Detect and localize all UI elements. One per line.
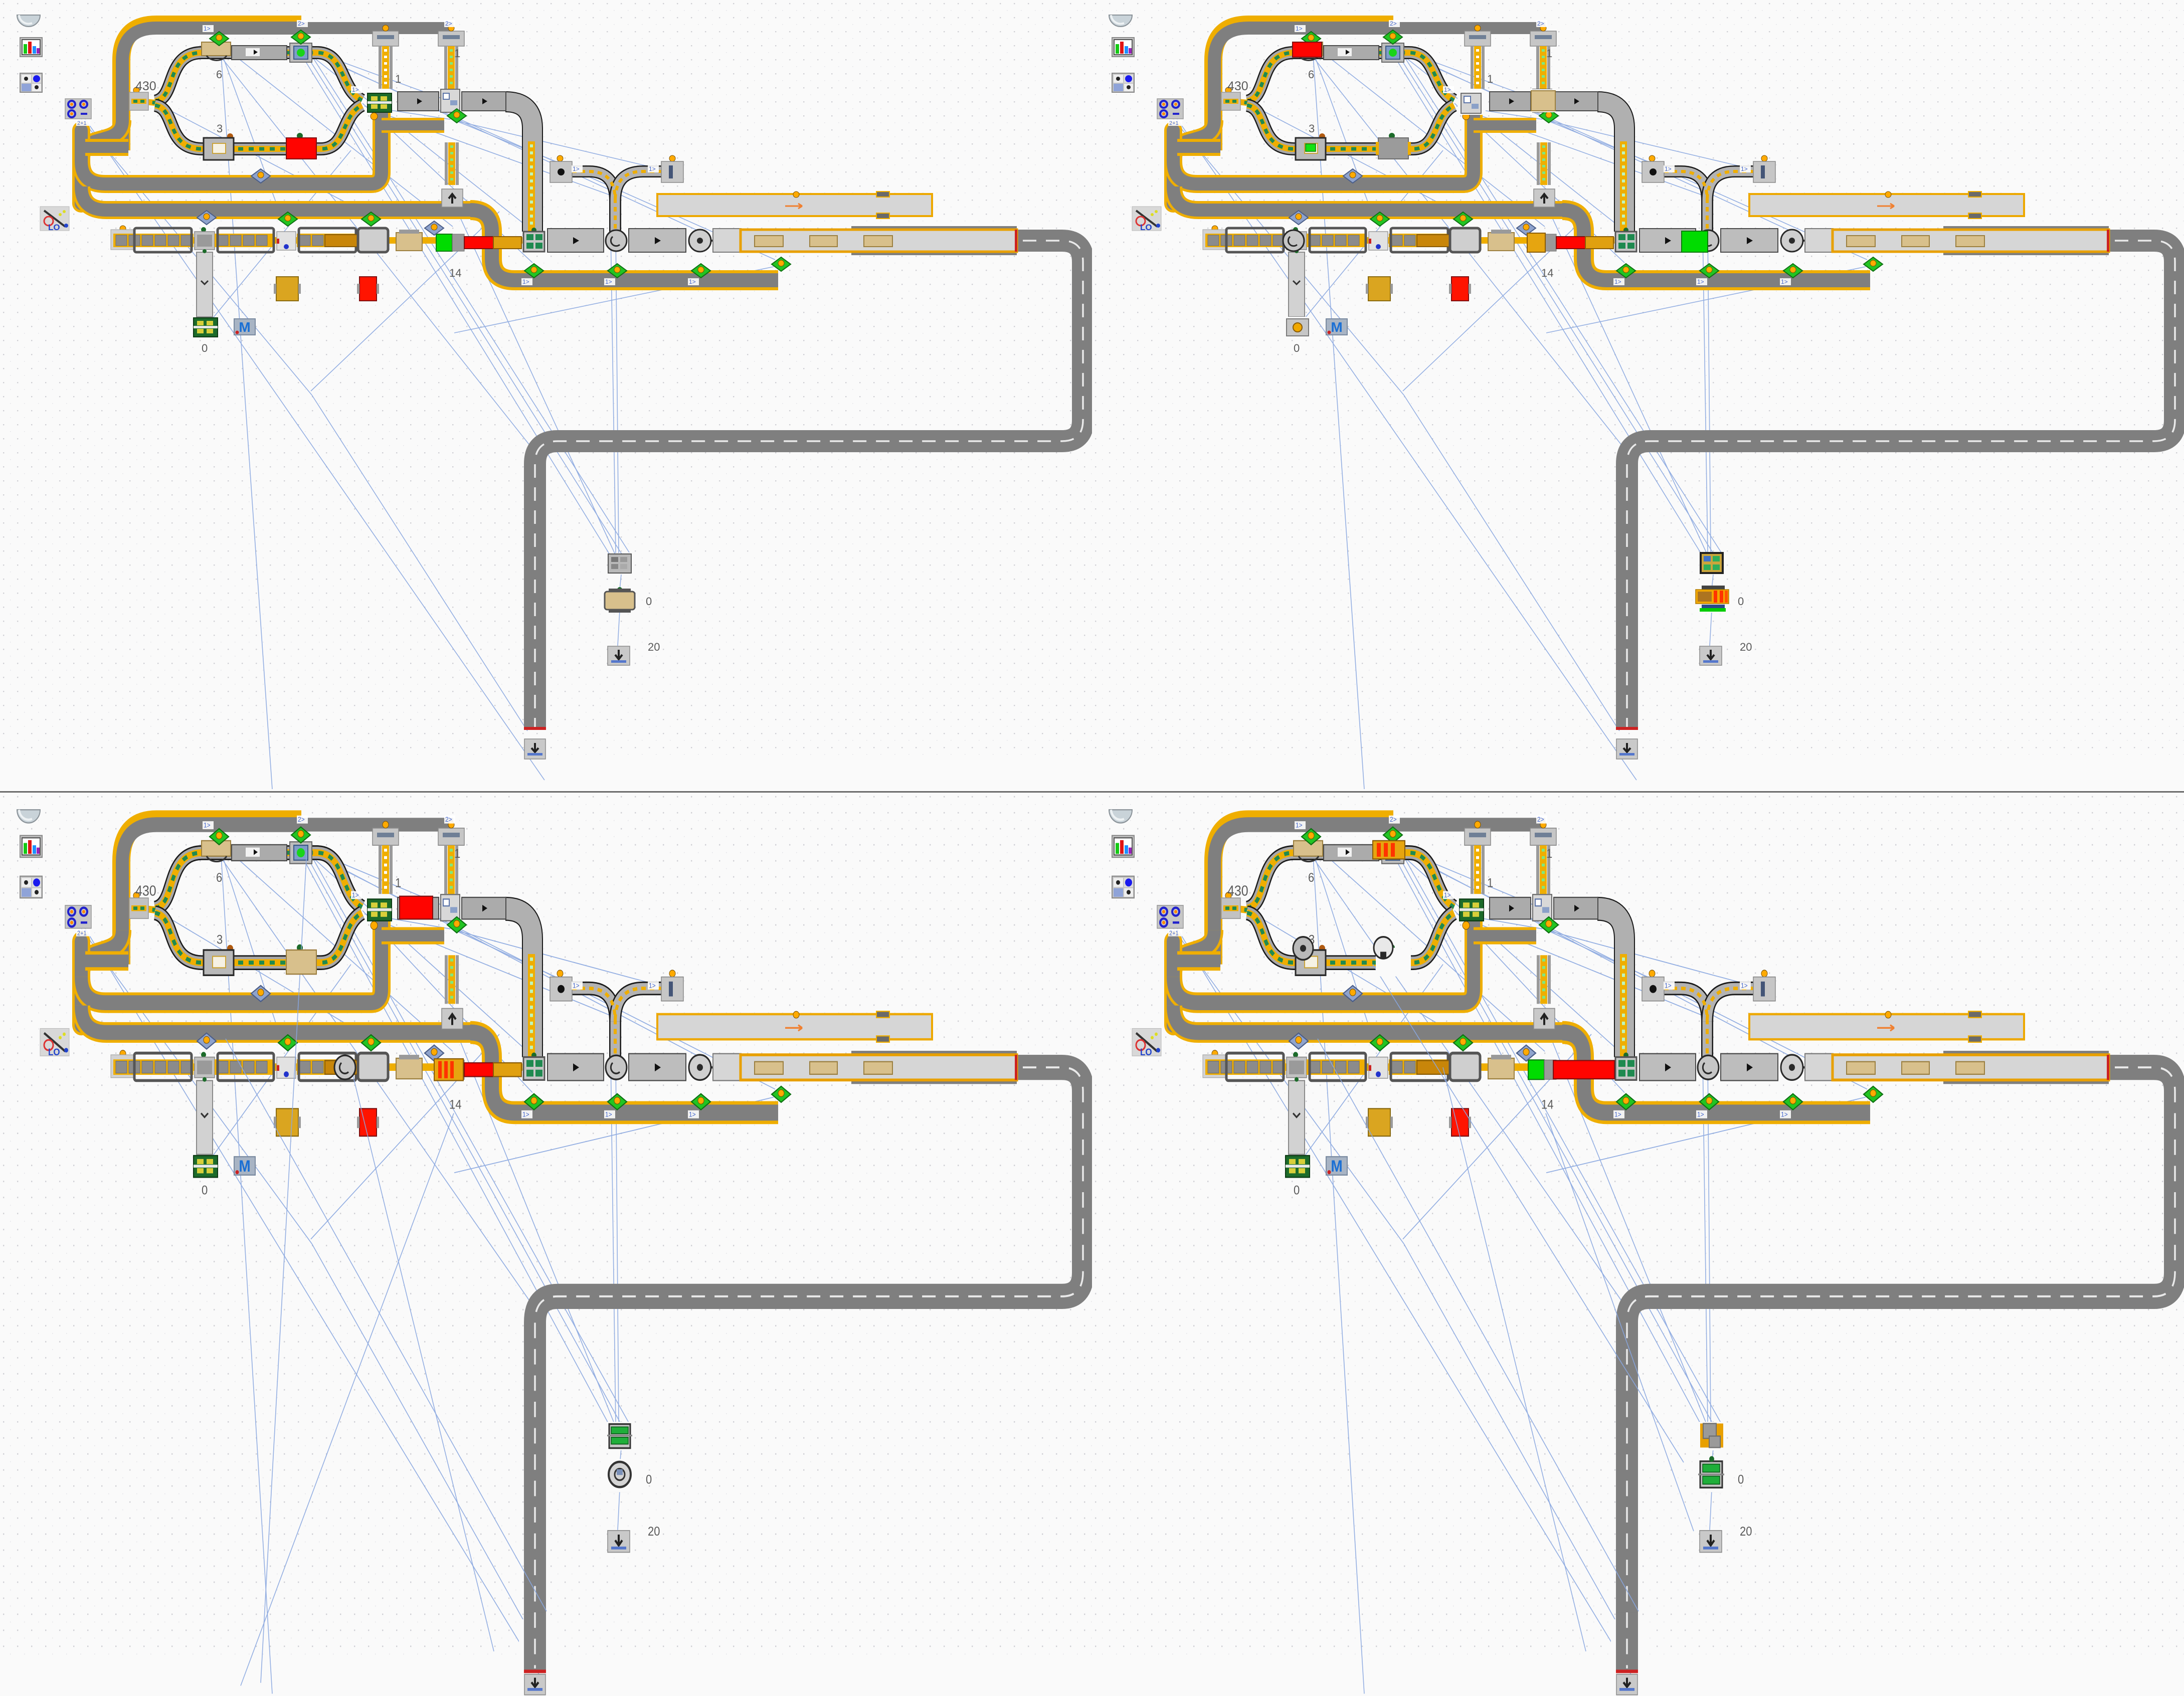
slot2: green stack — [1694, 1459, 1730, 1492]
extra connector lines — [1318, 965, 1694, 1651]
row: yellow piece replacing green, green moved right — [1527, 233, 1545, 252]
road extension for taller view — [1611, 1619, 1644, 1663]
row: circle machine — [334, 1055, 355, 1079]
tan box replacing junction at 879 — [1531, 89, 1555, 112]
Q3 bottom-left — [0, 793, 1092, 1696]
row: big red block — [1553, 1060, 1614, 1079]
slot1: green stack — [606, 1422, 633, 1450]
bottom vertical conveyor end machine — [1285, 317, 1311, 338]
bottom branch red -> circles — [1376, 948, 1411, 976]
slot2: orange striped wagon — [1694, 586, 1730, 613]
Q1 top-left — [0, 0, 1092, 791]
row: orange striped block replacing green — [434, 1059, 463, 1080]
slot2: circle machine — [602, 1459, 638, 1492]
exit machine replaced by small junction — [1458, 91, 1486, 115]
gray buffer replacing red on bottom branch — [1378, 138, 1408, 159]
Q2 top-right — [1092, 0, 2184, 791]
road extension for taller view — [519, 1619, 552, 1663]
red block on exit road — [400, 896, 433, 919]
red block on oval top branch — [1293, 42, 1322, 57]
bottom branch red -> tan — [286, 950, 316, 974]
green item on plate station — [1306, 144, 1316, 151]
Q4 bottom-right — [1092, 793, 2184, 1696]
seam line — [0, 791, 2184, 793]
orange striped block on oval top branch — [1373, 841, 1405, 859]
extra connector lines — [226, 850, 547, 1685]
circle machine in row — [1283, 230, 1304, 251]
slot1: black framed machine — [1699, 552, 1724, 574]
slot1: orange/gray box — [1698, 1422, 1725, 1450]
